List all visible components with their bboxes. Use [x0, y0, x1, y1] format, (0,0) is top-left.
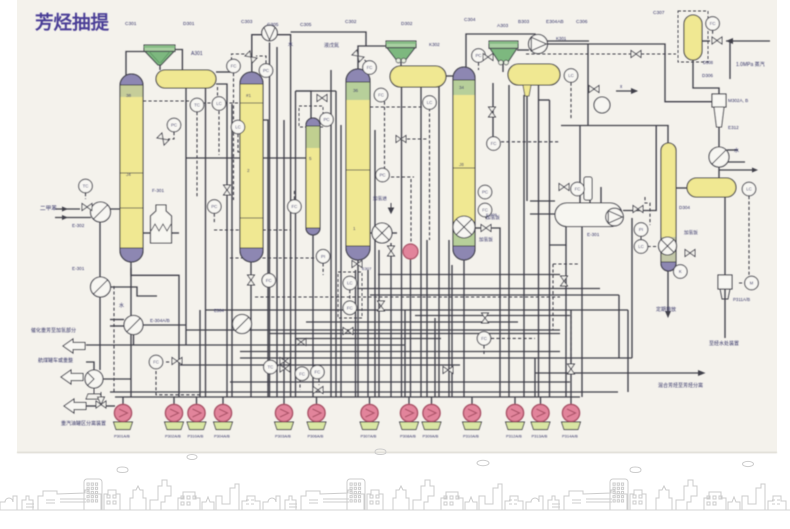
city skyline: [0, 479, 790, 510]
svg-text:E304AB: E304AB: [546, 19, 564, 25]
svg-text:FC: FC: [231, 64, 237, 69]
drum B303 bottom nozzle: [523, 85, 531, 96]
furnace F-301: [151, 205, 172, 243]
wire steam vert: [729, 41, 731, 79]
wire D302 nozzle line: [420, 87, 422, 397]
svg-text:A303: A303: [497, 23, 509, 29]
svg-text:38: 38: [126, 93, 132, 98]
wire header y352: [240, 351, 560, 353]
exchanger C304 reboiler: [453, 216, 475, 238]
wire E301x out: [111, 287, 158, 296]
wire vert 205: [205, 88, 207, 397]
instrument PI: [634, 223, 648, 237]
svg-text:FC: FC: [347, 305, 353, 310]
svg-text:加氢饭: 加氢饭: [684, 229, 698, 236]
wire A301 tip: [159, 65, 161, 70]
wire vert 580: [579, 126, 581, 204]
svg-text:混合芳烃至芳烃分离: 混合芳烃至芳烃分离: [658, 382, 703, 389]
valve: [482, 313, 489, 323]
svg-text:1.0MPa 蒸汽: 1.0MPa 蒸汽: [736, 61, 765, 68]
valve: [172, 358, 182, 365]
wire smallpump discharge: [103, 378, 131, 380]
feed arrowheads: [62, 207, 68, 221]
wire C304 overhead: [466, 34, 535, 68]
wire suction P313A/B: [540, 397, 542, 406]
svg-text:FC: FC: [291, 204, 297, 209]
ejector E312: [714, 107, 724, 127]
instrument FC: [478, 203, 492, 217]
svg-text:LC: LC: [347, 281, 353, 286]
svg-text:C306: C306: [576, 19, 588, 25]
block arrow to gasoline unit: [64, 399, 86, 413]
wire E302 to E301: [99, 221, 101, 277]
svg-text:P301A/B: P301A/B: [114, 434, 130, 439]
svg-text:D304: D304: [679, 205, 690, 210]
wire feed to C301: [92, 208, 120, 210]
instrument FC: [706, 17, 720, 31]
svg-text:FC: FC: [367, 65, 373, 70]
svg-text:P304A/B: P304A/B: [214, 434, 230, 439]
valve: [388, 246, 395, 256]
cyclone separator A302: [386, 41, 416, 63]
paper bottom edge: [17, 452, 777, 454]
svg-text:二甲苯: 二甲苯: [40, 204, 57, 212]
valve: [248, 275, 255, 285]
valve: [296, 339, 306, 346]
signal reboiler C: [648, 246, 662, 248]
wire vert 442: [438, 87, 440, 397]
signal PI323: [322, 263, 324, 275]
wire E304 water2: [110, 325, 124, 327]
valve: [633, 206, 643, 213]
svg-text:J4: J4: [126, 172, 131, 177]
signal dash y258: [230, 257, 318, 259]
wire D301 branch: [216, 71, 232, 73]
wire vert 232: [231, 104, 233, 397]
svg-text:FC: FC: [481, 336, 487, 341]
wire F301 return: [169, 232, 179, 234]
svg-text:C303: C303: [241, 19, 253, 25]
filter M302A,B: [712, 94, 726, 107]
valve: [352, 261, 362, 268]
dashed box mid instruments: [338, 272, 362, 318]
wire suction P301A/B: [122, 397, 124, 406]
valve: [712, 37, 722, 44]
signal LC571 drop: [570, 83, 572, 121]
signal dash y230: [214, 229, 290, 231]
wire compressor out2: [547, 40, 589, 42]
wire vert 331: [330, 70, 332, 397]
svg-text:P309A/B: P309A/B: [423, 434, 439, 439]
wire C306 to D304: [676, 187, 687, 189]
instrument FC: [571, 182, 585, 196]
signal drum gauge: [217, 87, 219, 96]
wire C304 reboiler valve line: [475, 227, 481, 229]
wire suction P310A/B: [471, 397, 473, 406]
wire E301 pump out: [623, 126, 656, 211]
wire vert 549: [549, 100, 551, 397]
wire vert 538: [538, 83, 540, 397]
instrument PI: [316, 249, 330, 263]
svg-text:E312: E312: [728, 125, 739, 130]
svg-text:P310A/B: P310A/B: [463, 434, 479, 439]
svg-text:FC: FC: [491, 141, 497, 146]
wire C304 bottoms: [463, 260, 465, 397]
svg-text:PC: PC: [211, 204, 217, 209]
svg-text:PC: PC: [379, 173, 385, 178]
wire A301 to D301: [175, 50, 182, 72]
wire C303 sidedraw: [263, 120, 268, 397]
wire C301 bottoms: [131, 262, 179, 397]
svg-text:TC: TC: [83, 184, 89, 189]
wire D302 to C304 feed: [446, 75, 453, 77]
valve: [317, 95, 327, 102]
svg-text:PI: PI: [639, 227, 643, 232]
cyclone separator A301: [144, 45, 175, 65]
wire E304 connect: [143, 324, 186, 326]
svg-text:FC: FC: [314, 370, 320, 375]
instrument FC: [149, 355, 163, 369]
pump P312A/B: [506, 404, 525, 429]
signal PI641: [640, 237, 642, 241]
signal TC85 drop: [85, 193, 87, 199]
signal vert219 dash: [218, 111, 220, 155]
vessel C307: [684, 15, 702, 60]
signal col to TC: [143, 100, 189, 102]
instrument FC: [295, 367, 309, 381]
svg-text:34: 34: [459, 85, 465, 90]
valve: [631, 51, 641, 58]
wire vert 535: [534, 358, 536, 397]
wire vert 368: [367, 270, 369, 397]
svg-text:重汽油罐区分离装置: 重汽油罐区分离装置: [61, 420, 106, 427]
wire header y338: [296, 338, 441, 340]
svg-text:FC: FC: [575, 187, 581, 192]
wire C305 top: [296, 91, 312, 118]
vessel E-301: [555, 203, 622, 227]
svg-text:P308A/B: P308A/B: [400, 434, 416, 439]
wire suction P303A/B: [283, 397, 285, 406]
valve: [280, 365, 290, 372]
svg-text:催化重芳至加氢部分: 催化重芳至加氢部分: [31, 327, 76, 334]
signal FC302 drop: [299, 379, 301, 390]
svg-text:E-304A/B: E-304A/B: [150, 318, 170, 323]
wire vert 277: [276, 47, 278, 397]
signal PC top C303: [256, 56, 266, 64]
signal PC382: [391, 176, 414, 178]
wire C306 riser: [667, 126, 669, 144]
wire B303 bottom outlet: [526, 95, 528, 201]
exchanger C306 reboiler: [659, 237, 677, 255]
signal LC127 drop: [233, 73, 235, 200]
wire vert 564: [565, 245, 567, 397]
svg-text:FC: FC: [378, 93, 384, 98]
svg-text:B303: B303: [518, 19, 530, 25]
svg-text:#1: #1: [246, 93, 252, 98]
signal FC160 drop: [156, 371, 200, 395]
exchanger E-301x: [91, 277, 111, 297]
wire vert 200: [199, 310, 201, 397]
valve: [280, 358, 290, 365]
svg-text:LC: LC: [427, 100, 433, 105]
wire vert 571: [570, 310, 572, 397]
signal dash 410: [570, 310, 572, 363]
wire D304 bottom: [724, 197, 726, 275]
wire C302 reboiler line: [370, 232, 372, 234]
wire header y330: [186, 329, 560, 331]
svg-text:PC: PC: [482, 190, 488, 195]
wire vert 524: [523, 95, 525, 397]
instrument PC: [259, 64, 273, 78]
steam arrowhead: [726, 38, 733, 44]
arrow 加氢 down: [389, 203, 394, 213]
signal P311 to M: [739, 282, 745, 284]
wire header y310: [205, 309, 628, 311]
exchanger C302 reboiler: [372, 223, 392, 243]
svg-text:PI: PI: [321, 254, 325, 259]
wire C301 pumpline: [130, 268, 132, 397]
wire suction P304A/B: [222, 397, 224, 406]
signal FC160 line: [166, 361, 171, 363]
instrument PC: [478, 185, 492, 199]
signal TC270 to valves: [275, 365, 280, 367]
instrument PC: [208, 200, 222, 214]
wire feed line2: [55, 217, 91, 219]
valve: [481, 225, 491, 232]
svg-text:PC: PC: [171, 123, 177, 128]
signal pumpbox v: [552, 264, 554, 330]
svg-text:P307A/B: P307A/B: [361, 434, 377, 439]
wire E301 botline1: [550, 226, 566, 245]
instrument FC: [311, 365, 325, 379]
exchanger E-302: [91, 202, 111, 222]
wire header y125: [561, 125, 669, 127]
wire vert 628: [627, 310, 629, 392]
blowdown arrowhead: [665, 311, 671, 318]
signal LC127: [238, 134, 240, 152]
svg-text:K301: K301: [556, 36, 567, 41]
wire E304 water: [110, 319, 124, 321]
wire suction P310A/B: [196, 397, 198, 406]
instrument LC: [742, 182, 756, 196]
valve: [443, 367, 453, 374]
valve: [559, 184, 569, 191]
cooler top right: [709, 147, 729, 167]
pump P308A/B: [400, 404, 419, 429]
wire smallpump suction: [86, 362, 94, 370]
instrument TC: [79, 179, 93, 193]
pump in E-301: [606, 208, 624, 226]
wire xylene feed: [55, 208, 80, 210]
svg-text:1: 1: [353, 226, 356, 231]
wire vert 379: [378, 250, 380, 397]
wire blockarrow3 line: [82, 405, 96, 407]
svg-text:K: K: [679, 269, 682, 274]
wire header y274: [378, 274, 560, 276]
signal steam dash: [526, 53, 631, 55]
instrument FC: [363, 61, 377, 75]
wire header y392: [110, 391, 618, 393]
wire vert 341: [340, 125, 342, 397]
svg-text:K302: K302: [429, 42, 440, 47]
wire header y365: [180, 364, 460, 366]
signal FC384 chain: [384, 102, 386, 171]
svg-text:J8: J8: [459, 162, 464, 167]
wire vert 452: [451, 265, 453, 397]
pump P306A/B: [307, 404, 326, 429]
instrument K: [674, 265, 688, 279]
instrument PC: [167, 118, 181, 132]
svg-text:至经水处装置: 至经水处装置: [709, 340, 739, 347]
valve: [82, 204, 92, 211]
svg-text:液戊氮: 液戊氮: [324, 42, 339, 49]
wire valve to P301: [106, 405, 115, 407]
wire header y288: [357, 288, 600, 290]
valve: [589, 86, 599, 93]
drum D301: [156, 70, 216, 88]
instrument LC: [231, 120, 245, 134]
valve: [343, 328, 353, 335]
drum D302: [390, 66, 446, 87]
drum B303: [508, 64, 560, 85]
instrument PC: [320, 113, 334, 127]
instrument LC: [564, 69, 578, 83]
wire C303 bottoms: [250, 262, 252, 397]
instrument FC: [288, 200, 302, 214]
vapor arrowhead: [752, 168, 758, 173]
svg-text:P311A/B: P311A/B: [733, 297, 750, 302]
wire steam to C307: [702, 40, 710, 42]
column C305: [306, 118, 320, 235]
valve: [224, 185, 231, 195]
svg-text:航煤罐车或重整: 航煤罐车或重整: [38, 357, 73, 364]
instrument PC: [376, 168, 390, 182]
signal dash y107: [370, 106, 423, 108]
signal steam dash2: [641, 53, 676, 55]
wire C302 bottoms: [357, 260, 359, 397]
wire D301 outlet right: [216, 84, 227, 397]
wire E301 left nozzle: [530, 213, 555, 215]
svg-text:水: 水: [734, 147, 739, 154]
inline filter 588: [584, 177, 592, 200]
valve: [685, 250, 695, 257]
wire E301 feed top2: [600, 187, 602, 203]
svg-text:FC: FC: [710, 21, 716, 26]
wire vert 355: [355, 270, 357, 397]
wire cooler side: [727, 161, 745, 163]
wire blockarrow1 header: [86, 344, 405, 346]
svg-text:2: 2: [247, 168, 250, 173]
signal e301 box: [645, 197, 650, 225]
wire header y333: [269, 333, 560, 335]
svg-text:LC: LC: [746, 187, 752, 192]
wire E312 to exch: [718, 127, 720, 147]
column C304: [453, 67, 475, 260]
wire vert 435: [434, 318, 436, 397]
svg-text:PC: PC: [323, 117, 329, 122]
column C301: [120, 74, 143, 262]
wire vert 391: [390, 243, 392, 397]
wire C301 overhead: [126, 52, 145, 76]
signal PC174: [168, 132, 174, 139]
block arrow to hydrogenation: [63, 339, 85, 353]
pump P309A/B: [422, 404, 441, 429]
svg-text:E307: E307: [362, 266, 372, 271]
svg-text:LC: LC: [568, 73, 574, 78]
dashed box C305 top: [299, 106, 323, 127]
wire exch382 out: [392, 232, 397, 234]
wire E304 down: [133, 335, 135, 346]
signal dash115: [113, 286, 115, 394]
svg-text:E-302: E-302: [72, 223, 85, 228]
x arrowhead: [631, 88, 638, 94]
signal FC484 drop: [483, 345, 485, 356]
cyclone separator A303: [489, 41, 518, 65]
wire E301 botline2: [581, 226, 583, 397]
svg-text:TC: TC: [194, 103, 200, 108]
signal FC294: [293, 190, 295, 200]
wire suction P302A/B: [173, 397, 175, 406]
wire suction P309A/B: [431, 397, 433, 406]
svg-text:M302A, B: M302A, B: [728, 98, 748, 103]
svg-text:C305: C305: [300, 22, 312, 28]
valve: [378, 301, 385, 311]
valve: [157, 133, 169, 145]
svg-text:M: M: [750, 281, 754, 286]
svg-text:D302: D302: [401, 21, 413, 27]
wire header y295: [370, 294, 619, 296]
pump P311 box: [718, 275, 732, 289]
valve: [561, 276, 568, 286]
signal LC749 drop: [748, 196, 750, 276]
svg-text:FC: FC: [153, 360, 159, 365]
instrument LC: [634, 240, 648, 254]
svg-text:D306: D306: [702, 73, 713, 78]
wire header y382: [230, 381, 570, 383]
wire vert 588: [587, 44, 589, 126]
svg-text:P302A/B: P302A/B: [165, 434, 181, 439]
valve: [352, 50, 364, 62]
wire C305 bottoms: [312, 235, 314, 397]
svg-text:E-301: E-301: [72, 266, 85, 271]
signal FC369: [362, 58, 367, 62]
svg-text:C307: C307: [653, 10, 665, 16]
signal vert205 dash: [196, 112, 198, 198]
svg-text:P303A/B: P303A/B: [275, 434, 291, 439]
wire vert 336: [335, 91, 337, 397]
wire steam supply: [726, 40, 770, 42]
wire vert pinkball: [410, 259, 412, 397]
wire B303 to E301: [530, 200, 555, 202]
wire arrow x: [616, 90, 637, 92]
valve: [396, 136, 406, 143]
wire exch to D304: [718, 167, 720, 178]
three-way control valve left: [96, 392, 106, 408]
exchanger E304mid: [233, 315, 252, 334]
compressor K301: [529, 35, 548, 54]
wire condenser down: [269, 43, 271, 398]
svg-text:D308: D308: [703, 60, 714, 65]
wire compressor in: [517, 49, 529, 51]
wire suction P307A/B: [369, 397, 371, 406]
svg-text:A301: A301: [191, 51, 203, 57]
svg-text:P310A/B: P310A/B: [188, 434, 204, 439]
product arrowhead: [698, 370, 706, 376]
wire header y397: [115, 396, 580, 398]
svg-text:P306A/B: P306A/B: [308, 434, 324, 439]
wire suction P314A/B: [570, 397, 572, 406]
svg-text:E-301: E-301: [587, 232, 600, 237]
